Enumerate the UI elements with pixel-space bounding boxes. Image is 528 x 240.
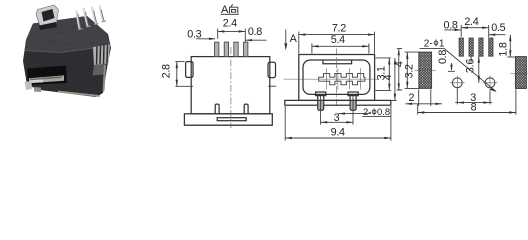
svg-text:1.8: 1.8 xyxy=(497,42,509,56)
dim 3 circles ext xyxy=(457,88,490,104)
front outer shell xyxy=(299,55,375,101)
side left clip xyxy=(186,62,193,78)
front inner outline xyxy=(303,60,370,94)
dim 9.4 ext xyxy=(285,106,391,141)
land pad2 stub xyxy=(470,56,472,62)
label 2-dia1 leader xyxy=(444,48,496,91)
photo metal clip top-left xyxy=(36,5,59,26)
photo pin feet on body xyxy=(78,21,106,29)
land right pad xyxy=(515,57,526,89)
land left pad xyxy=(419,52,432,88)
dim 3.6 line xyxy=(478,56,480,83)
side body outline xyxy=(191,57,270,114)
dim 0.5 leader xyxy=(489,34,506,36)
dim 2 bottom line xyxy=(405,103,442,105)
svg-text:5.4: 5.4 xyxy=(331,34,345,46)
side base xyxy=(184,114,272,125)
dim 3.2 line xyxy=(406,52,408,88)
land top pad 2 xyxy=(469,38,473,56)
label 2-dia0.8 underline xyxy=(362,116,390,118)
label 2-dia0.8 leader xyxy=(338,113,371,115)
front left pad cap xyxy=(316,92,326,96)
dim 0.8 top leader xyxy=(444,29,461,31)
photo body silhouette xyxy=(23,16,111,97)
photo right lower edge metal xyxy=(104,65,106,91)
photo slot strip bright left xyxy=(30,78,44,83)
land hole 1 xyxy=(452,78,462,88)
svg-text:2: 2 xyxy=(409,92,415,104)
svg-text:3.6: 3.6 xyxy=(464,59,476,73)
front right peg xyxy=(350,96,356,111)
front contact comb xyxy=(319,73,365,84)
dim 4 ext xyxy=(391,99,397,101)
dim 4 line xyxy=(394,58,396,101)
land left pad centerline xyxy=(415,69,436,71)
photo clip base shadow xyxy=(39,22,57,30)
land top pad 3 xyxy=(479,38,483,56)
front horizontal centerline xyxy=(284,78,379,80)
svg-text:2.4: 2.4 xyxy=(223,18,237,30)
svg-text:2.4: 2.4 xyxy=(464,16,478,28)
land top pad 4 xyxy=(489,38,493,56)
photo slot inner shadow xyxy=(30,76,62,80)
photo pin shadows xyxy=(78,10,104,29)
photo clip hole xyxy=(42,9,55,22)
dim 2.4 ext ticks xyxy=(461,25,489,37)
photo right contact slots xyxy=(97,45,108,65)
view arrow A xyxy=(285,30,287,46)
side pin 3 xyxy=(234,42,238,57)
dim 4 left ticks xyxy=(397,49,402,90)
front left peg fill xyxy=(318,101,323,110)
side centerline xyxy=(230,47,232,128)
photo front slot opening xyxy=(27,66,67,86)
front right pad cap xyxy=(348,92,358,96)
photo top face speckle xyxy=(40,27,96,44)
side pin 2 xyxy=(224,42,228,57)
photo bottom-left solder tab xyxy=(25,81,33,90)
dim 9.4 line xyxy=(285,137,391,139)
side base bottom thick xyxy=(184,124,272,126)
front top tab xyxy=(323,60,352,64)
dim 4 left line xyxy=(398,49,400,90)
svg-text:9.4: 9.4 xyxy=(331,127,345,139)
photo pin 4 xyxy=(100,7,103,21)
photo top ridge highlight xyxy=(25,46,110,53)
side right clip xyxy=(268,62,276,77)
dim 7.2 ext xyxy=(299,32,375,54)
svg-text:A: A xyxy=(290,33,298,45)
land hole 2 xyxy=(485,78,495,88)
front right peg fill xyxy=(351,101,356,110)
photo right below-contact metal xyxy=(93,64,107,76)
svg-text:3.2: 3.2 xyxy=(403,64,415,78)
dim 8 ext xyxy=(418,89,516,114)
dim 2.4 top line xyxy=(461,27,489,29)
glyph xiang xyxy=(229,5,237,14)
photo pin 3 xyxy=(92,8,96,23)
dim 5.4 line xyxy=(312,45,369,47)
svg-text:8: 8 xyxy=(471,102,477,114)
dim 3.1 line xyxy=(388,58,390,91)
dim 2.8 line xyxy=(176,62,178,87)
photo bottom edge metal streak xyxy=(58,92,100,97)
svg-text:1: 1 xyxy=(439,38,445,49)
land hole 1 cross xyxy=(450,76,465,91)
dim 3.1 ext xyxy=(376,58,392,91)
land right pad centerline xyxy=(511,73,528,75)
photo pin 1 xyxy=(77,12,80,29)
svg-text:4: 4 xyxy=(382,74,394,80)
dim 1.8 ext tick xyxy=(507,56,515,58)
side right step line xyxy=(268,85,276,87)
dim 0.8 vertical arrow xyxy=(448,63,455,71)
dim 0.8 leader xyxy=(246,39,267,41)
photo pin 2 xyxy=(84,9,88,26)
svg-text:2.8: 2.8 xyxy=(161,64,173,78)
dim 0.3 leader xyxy=(196,38,215,40)
dim 2.4 arrows xyxy=(218,30,225,32)
land hole 2 cross xyxy=(483,76,498,91)
dim 3 line xyxy=(321,121,353,123)
land top pad 1 xyxy=(459,38,463,56)
dim 2.4 ext ticks xyxy=(218,29,246,42)
svg-text:0.5: 0.5 xyxy=(491,22,505,34)
svg-text:2-: 2- xyxy=(424,38,433,49)
dim 2.4 line xyxy=(218,30,246,32)
photo right contact zone xyxy=(93,45,110,66)
dim 7.2 line xyxy=(299,34,375,36)
svg-text:0.8: 0.8 xyxy=(248,26,262,38)
svg-text:7.2: 7.2 xyxy=(332,22,346,34)
side pin 1 xyxy=(215,42,219,57)
front vertical centerline xyxy=(336,49,338,108)
front contact centerlines xyxy=(327,68,361,89)
side pin 4 xyxy=(244,42,248,57)
dim 1.8 line xyxy=(509,35,511,57)
dim 3 circles line xyxy=(455,102,492,104)
dim 5.4 ext xyxy=(312,43,369,53)
front base xyxy=(285,100,391,105)
dim 2.8 ext tick xyxy=(175,61,184,63)
side foot 1 xyxy=(215,104,219,114)
dim 3 ext xyxy=(321,96,353,125)
dim 2 bottom ext xyxy=(419,89,431,106)
dim 3.2 ticks xyxy=(405,52,419,88)
side foot 2 xyxy=(244,104,248,114)
photo top face xyxy=(25,16,110,53)
side left step line xyxy=(175,85,193,87)
A-xiang underline xyxy=(221,13,239,15)
dim 8 line xyxy=(418,112,516,114)
side slot between feet xyxy=(217,118,246,121)
photo bottom mid tab xyxy=(34,87,41,92)
front left peg xyxy=(318,96,324,111)
label 2-dia1 underline xyxy=(420,47,444,49)
photo slot metal strip xyxy=(29,75,64,83)
svg-text:0.8: 0.8 xyxy=(437,50,449,64)
